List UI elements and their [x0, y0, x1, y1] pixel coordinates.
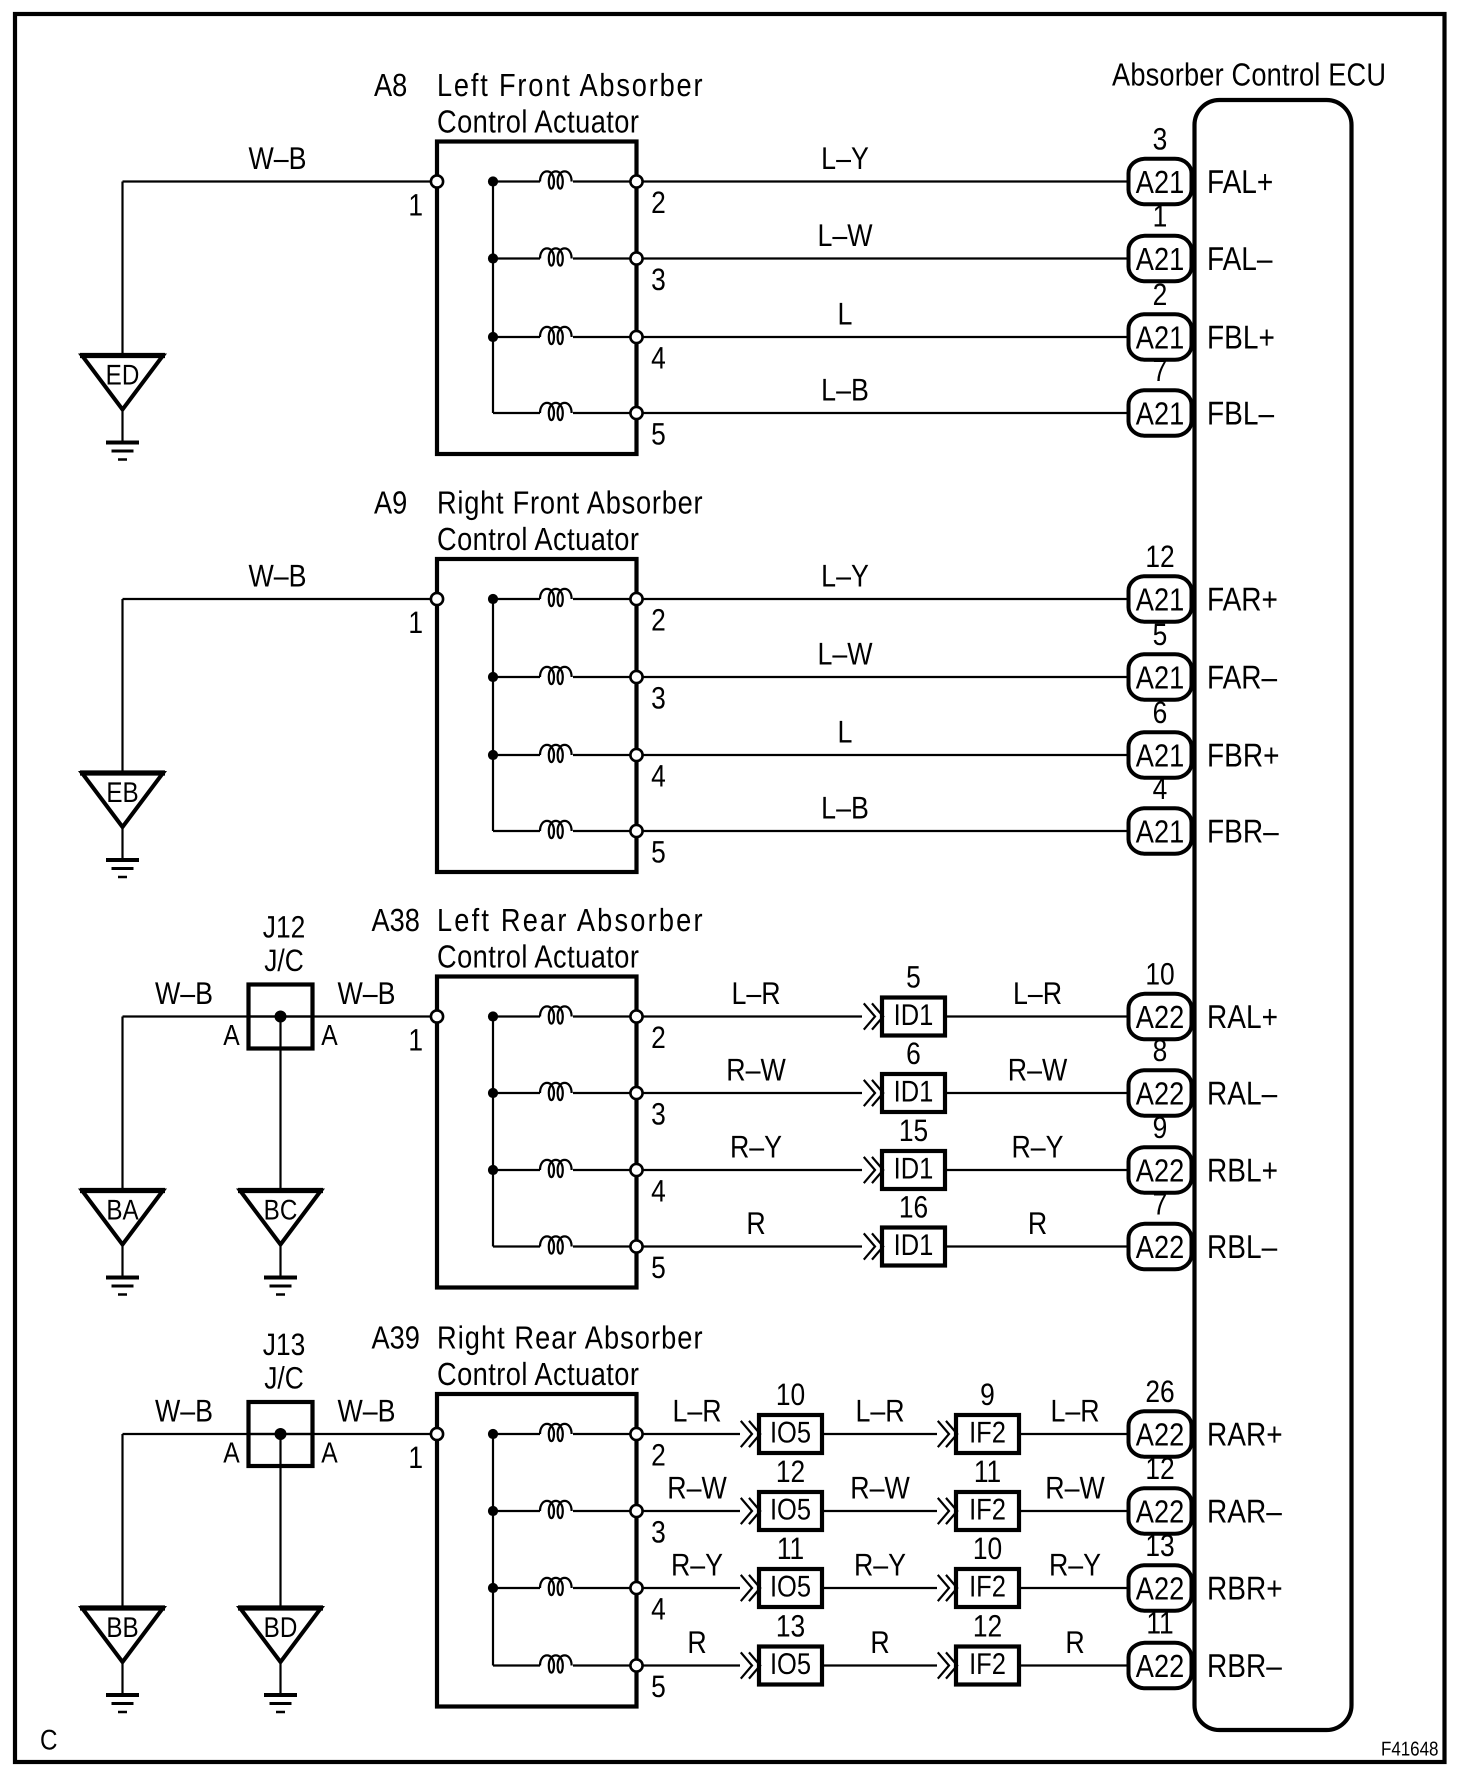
svg-text:L–R: L–R — [1013, 975, 1062, 1011]
svg-text:2: 2 — [651, 1438, 666, 1473]
svg-text:RBL+: RBL+ — [1207, 1152, 1278, 1189]
pin 5 of A38 — [630, 1240, 665, 1285]
label: A38 Left Rear Absorber Control Actuator — [372, 902, 703, 975]
connector A21 pin 7 (FBL–) — [1129, 353, 1192, 436]
svg-text:5: 5 — [651, 417, 666, 452]
coil winding A8-2 — [493, 248, 637, 265]
svg-text:R–W: R–W — [667, 1470, 727, 1506]
svg-text:W–B: W–B — [337, 975, 395, 1011]
connector IF2 pin 10 — [939, 1531, 1020, 1607]
svg-text:L–W: L–W — [817, 636, 872, 672]
svg-text:R–Y: R–Y — [1049, 1547, 1101, 1583]
svg-text:ED: ED — [106, 360, 140, 392]
svg-text:L–B: L–B — [821, 372, 869, 408]
svg-text:10: 10 — [973, 1531, 1002, 1566]
svg-text:F41648: F41648 — [1381, 1739, 1438, 1761]
label: A9 Right Front Absorber Control Actuator — [374, 485, 703, 558]
label: A39 Right Rear Absorber Control Actuator — [372, 1320, 703, 1393]
svg-text:A8: A8 — [374, 67, 407, 103]
ground BA — [80, 1191, 165, 1295]
wire R–Y from A38 pin 4 to ID1 — [643, 1129, 862, 1171]
actuator block A9 body — [437, 559, 637, 872]
wire L–R from ID1 to ECU RAL+ — [947, 975, 1129, 1017]
svg-text:12: 12 — [1145, 539, 1174, 574]
coil winding A8-1 — [493, 171, 637, 188]
connector A22 pin 13 (RBR+) — [1129, 1528, 1192, 1611]
svg-text:4: 4 — [651, 1174, 666, 1209]
pin 4 of A39 — [630, 1582, 665, 1627]
coil winding A39-1 — [493, 1424, 637, 1441]
svg-text:7: 7 — [1153, 1187, 1168, 1222]
svg-text:A22: A22 — [1136, 1417, 1184, 1453]
svg-text:1: 1 — [408, 605, 423, 640]
svg-text:5: 5 — [1153, 617, 1168, 652]
svg-text:L–R: L–R — [855, 1393, 904, 1429]
svg-text:L–R: L–R — [731, 975, 780, 1011]
svg-text:FBR+: FBR+ — [1207, 737, 1279, 774]
svg-text:13: 13 — [1145, 1528, 1174, 1563]
svg-text:R–W: R–W — [850, 1470, 910, 1506]
wire R from A39 pin 5 to IO5 — [643, 1624, 740, 1666]
connector IF2 pin 9 — [939, 1377, 1020, 1453]
svg-text:FBL–: FBL– — [1207, 395, 1275, 432]
svg-text:R: R — [1028, 1205, 1047, 1241]
svg-text:FBR–: FBR– — [1207, 813, 1279, 850]
svg-text:6: 6 — [906, 1036, 921, 1071]
pin 2 of A39 — [630, 1428, 665, 1473]
svg-text:A38: A38 — [372, 902, 420, 938]
svg-text:ID1: ID1 — [894, 1076, 934, 1109]
svg-text:IO5: IO5 — [770, 1571, 811, 1604]
wire W-B from ground to pin 1 of A9 — [123, 558, 431, 774]
pin 1 of A38 — [408, 1010, 443, 1057]
svg-text:L–R: L–R — [672, 1393, 721, 1429]
junction node A9 row 3 — [488, 750, 498, 760]
svg-text:R–Y: R–Y — [854, 1547, 906, 1583]
label: A8 Left Front Absorber Control Actuator — [374, 67, 703, 140]
svg-text:5: 5 — [651, 1250, 666, 1285]
svg-text:IF2: IF2 — [969, 1417, 1006, 1450]
svg-text:3: 3 — [651, 1515, 666, 1550]
svg-text:10: 10 — [1145, 957, 1174, 992]
svg-text:10: 10 — [776, 1377, 805, 1412]
svg-text:Absorber Control ECU: Absorber Control ECU — [1112, 57, 1386, 93]
coil winding A8-4 — [493, 403, 637, 420]
svg-text:R: R — [870, 1624, 889, 1660]
svg-text:FAR+: FAR+ — [1207, 581, 1278, 618]
svg-text:A: A — [223, 1020, 240, 1052]
pin 1 of A9 — [408, 593, 443, 640]
svg-text:A22: A22 — [1136, 1076, 1184, 1112]
connector A21 pin 3 (FAL+) — [1129, 122, 1192, 205]
svg-text:ID1: ID1 — [894, 1229, 934, 1262]
pin 3 of A9 — [630, 671, 665, 716]
pin 2 of A8 — [630, 175, 665, 220]
svg-text:W–B: W–B — [155, 975, 213, 1011]
ECU: Absorber Control ECU — [1112, 57, 1386, 1731]
svg-text:8: 8 — [1153, 1033, 1168, 1068]
svg-text:J/C: J/C — [264, 943, 304, 978]
svg-text:12: 12 — [973, 1609, 1002, 1644]
junction connector J12 (J/C) — [223, 910, 338, 1053]
junction node A38 row 3 — [488, 1165, 498, 1175]
svg-text:A: A — [223, 1438, 240, 1470]
wire R–Y from A39 pin 4 to IO5 — [643, 1547, 740, 1589]
svg-text:RAL+: RAL+ — [1207, 998, 1278, 1035]
pin 5 of A8 — [630, 407, 665, 452]
svg-text:IO5: IO5 — [770, 1648, 811, 1681]
svg-text:Left Rear Absorber: Left Rear Absorber — [437, 902, 703, 938]
svg-text:A21: A21 — [1136, 396, 1184, 432]
pin 3 of A8 — [630, 252, 665, 297]
svg-text:RAL–: RAL– — [1207, 1075, 1278, 1112]
svg-text:L: L — [838, 296, 853, 332]
ground BC — [238, 1191, 323, 1295]
svg-text:11: 11 — [777, 1531, 804, 1566]
svg-text:FBL+: FBL+ — [1207, 319, 1275, 356]
connector IO5 pin 11 — [742, 1531, 823, 1607]
svg-text:R: R — [1065, 1624, 1084, 1660]
svg-text:11: 11 — [1146, 1606, 1173, 1641]
actuator block A39 body — [437, 1394, 637, 1707]
svg-text:J/C: J/C — [264, 1361, 304, 1396]
junction node A8 row 2 — [488, 253, 498, 263]
svg-text:12: 12 — [1145, 1451, 1174, 1486]
svg-text:A21: A21 — [1136, 738, 1184, 774]
svg-text:A22: A22 — [1136, 1153, 1184, 1189]
connector A21 pin 6 (FBR+) — [1129, 695, 1192, 778]
svg-text:A21: A21 — [1136, 164, 1184, 200]
connector IO5 pin 10 — [742, 1377, 823, 1453]
junction node A39 row 1 — [488, 1429, 498, 1439]
svg-text:RAR+: RAR+ — [1207, 1416, 1283, 1453]
wire from J13 pin A down to ground BD — [279, 1434, 281, 1608]
svg-text:R–W: R–W — [1008, 1052, 1068, 1088]
svg-text:Right Front Absorber: Right Front Absorber — [437, 485, 703, 521]
svg-text:A21: A21 — [1136, 582, 1184, 618]
svg-text:FAR–: FAR– — [1207, 659, 1278, 696]
pin 4 of A38 — [630, 1164, 665, 1209]
actuator block A38 body — [437, 977, 637, 1288]
coil winding A39-4 — [493, 1655, 637, 1672]
wire R–W from IF2 to ECU RAR– — [1021, 1470, 1129, 1512]
svg-text:J12: J12 — [263, 910, 305, 945]
svg-text:1: 1 — [408, 188, 423, 223]
pin 1 of A8 — [408, 175, 443, 222]
svg-text:A9: A9 — [374, 485, 407, 521]
svg-text:3: 3 — [1153, 122, 1168, 157]
svg-text:W–B: W–B — [248, 558, 306, 594]
wire L–W from A8 pin 3 to ECU FAL– — [643, 217, 1129, 259]
connector A21 pin 12 (FAR+) — [1129, 539, 1192, 622]
svg-text:L–W: L–W — [817, 217, 872, 253]
svg-text:R–Y: R–Y — [730, 1129, 782, 1165]
svg-text:Right Rear Absorber: Right Rear Absorber — [437, 1320, 703, 1356]
wire L–R from A39 pin 2 to IO5 — [643, 1393, 740, 1435]
junction node A38 row 1 — [488, 1011, 498, 1021]
svg-text:BD: BD — [264, 1612, 298, 1644]
svg-text:ID1: ID1 — [894, 1153, 934, 1186]
coil winding A38-1 — [493, 1006, 637, 1023]
svg-text:4: 4 — [1153, 771, 1168, 806]
connector ID1 pin 15 — [865, 1113, 946, 1189]
svg-text:6: 6 — [1153, 695, 1168, 730]
junction node A8 row 1 — [488, 176, 498, 186]
svg-text:EB: EB — [106, 777, 138, 809]
connector A21 pin 1 (FAL–) — [1129, 199, 1192, 282]
svg-text:Control Actuator: Control Actuator — [437, 1356, 639, 1392]
connector A22 pin 9 (RBL+) — [1129, 1110, 1192, 1193]
svg-text:A22: A22 — [1136, 1229, 1184, 1265]
svg-text:5: 5 — [651, 1669, 666, 1704]
connector A22 pin 12 (RAR–) — [1129, 1451, 1192, 1534]
svg-text:IF2: IF2 — [969, 1648, 1006, 1681]
svg-text:FAL+: FAL+ — [1207, 163, 1273, 200]
svg-text:IO5: IO5 — [770, 1417, 811, 1450]
pin 2 of A9 — [630, 593, 665, 638]
svg-text:ID1: ID1 — [894, 999, 934, 1032]
svg-text:RBR+: RBR+ — [1207, 1570, 1283, 1607]
wire R–W from IO5 to IF2 — [824, 1470, 937, 1512]
wire L–Y from A8 pin 2 to ECU FAL+ — [643, 140, 1129, 182]
actuator block A8 body — [437, 142, 637, 455]
svg-text:C: C — [40, 1725, 58, 1757]
svg-text:A21: A21 — [1136, 320, 1184, 356]
wire R–Y from ID1 to ECU RBL+ — [947, 1129, 1129, 1171]
svg-text:L: L — [838, 714, 853, 750]
svg-text:BA: BA — [106, 1195, 138, 1227]
svg-text:A22: A22 — [1136, 999, 1184, 1035]
svg-text:2: 2 — [651, 603, 666, 638]
svg-text:R: R — [746, 1205, 765, 1241]
pin 3 of A38 — [630, 1087, 665, 1132]
wire W-B from ground BB to junction connector J13 — [123, 1393, 315, 1609]
svg-text:2: 2 — [1153, 277, 1168, 312]
svg-text:IF2: IF2 — [969, 1571, 1006, 1604]
svg-text:R–W: R–W — [726, 1052, 786, 1088]
wire L–B from A8 pin 5 to ECU FBL– — [643, 372, 1129, 414]
pin 5 of A9 — [630, 825, 665, 870]
svg-text:IF2: IF2 — [969, 1494, 1006, 1527]
svg-text:W–B: W–B — [155, 1393, 213, 1429]
connector A21 pin 4 (FBR–) — [1129, 771, 1192, 854]
wire L–R from IF2 to ECU RAR+ — [1021, 1393, 1129, 1435]
wire from J12 pin A down to ground BC — [279, 1017, 281, 1191]
connector IF2 pin 11 — [939, 1454, 1020, 1530]
connector A22 pin 7 (RBL–) — [1129, 1187, 1192, 1270]
svg-text:4: 4 — [651, 341, 666, 376]
svg-text:13: 13 — [776, 1609, 805, 1644]
svg-text:2: 2 — [651, 185, 666, 220]
wire W-B from J13 pin A to pin 1 of A39 — [247, 1393, 431, 1435]
svg-text:A21: A21 — [1136, 241, 1184, 277]
svg-text:IO5: IO5 — [770, 1494, 811, 1527]
connector IF2 pin 12 — [939, 1609, 1020, 1685]
connector A22 pin 26 (RAR+) — [1129, 1374, 1192, 1457]
svg-text:RAR–: RAR– — [1207, 1493, 1282, 1530]
wire L–R from A38 pin 2 to ID1 — [643, 975, 862, 1017]
svg-text:W–B: W–B — [337, 1393, 395, 1429]
wire R–Y from IF2 to ECU RBR+ — [1021, 1547, 1129, 1589]
svg-text:L–Y: L–Y — [821, 558, 869, 594]
ground BD — [238, 1608, 323, 1712]
svg-text:R: R — [687, 1624, 706, 1660]
junction connector J13 (J/C) — [223, 1327, 338, 1470]
svg-text:A: A — [321, 1438, 338, 1470]
pin 4 of A8 — [630, 331, 665, 376]
wire R–W from A39 pin 3 to IO5 — [643, 1470, 740, 1512]
svg-text:W–B: W–B — [248, 140, 306, 176]
junction node A39 row 2 — [488, 1506, 498, 1516]
wire R from IO5 to IF2 — [824, 1624, 937, 1666]
wire L from A8 pin 4 to ECU FBL+ — [643, 296, 1129, 338]
svg-text:BB: BB — [106, 1612, 138, 1644]
svg-text:L–Y: L–Y — [821, 140, 869, 176]
svg-text:12: 12 — [776, 1454, 805, 1489]
connector IO5 pin 13 — [742, 1609, 823, 1685]
ground BB — [80, 1608, 165, 1712]
connector A22 pin 11 (RBR–) — [1129, 1606, 1192, 1689]
wire W-B from J12 pin A to pin 1 of A38 — [247, 975, 431, 1017]
connector A22 pin 10 (RAL+) — [1129, 957, 1192, 1040]
svg-text:4: 4 — [651, 1592, 666, 1627]
svg-text:FAL–: FAL– — [1207, 240, 1273, 277]
wire R from ID1 to ECU RBL– — [947, 1205, 1129, 1247]
wire R from IF2 to ECU RBR– — [1021, 1624, 1129, 1666]
wire L–R from IO5 to IF2 — [824, 1393, 937, 1435]
wire L–W from A9 pin 3 to ECU FAR– — [643, 636, 1129, 678]
ground EB — [80, 773, 165, 877]
svg-text:RBR–: RBR– — [1207, 1647, 1282, 1684]
svg-text:BC: BC — [264, 1195, 298, 1227]
svg-text:16: 16 — [899, 1190, 928, 1225]
wire W-B from ground BA to junction connector J12 — [123, 975, 315, 1191]
svg-text:3: 3 — [651, 1097, 666, 1132]
coil winding A9-4 — [493, 821, 637, 838]
connector A21 pin 2 (FBL+) — [1129, 277, 1192, 360]
wire R–W from A38 pin 3 to ID1 — [643, 1052, 862, 1094]
svg-text:3: 3 — [651, 681, 666, 716]
svg-text:1: 1 — [1153, 199, 1168, 234]
svg-text:A21: A21 — [1136, 660, 1184, 696]
pin 5 of A39 — [630, 1659, 665, 1704]
svg-text:A22: A22 — [1136, 1571, 1184, 1607]
pin 2 of A38 — [630, 1010, 665, 1055]
svg-text:1: 1 — [408, 1023, 423, 1058]
svg-text:2: 2 — [651, 1020, 666, 1055]
connector ID1 pin 6 — [865, 1036, 946, 1112]
wire W-B from ground to pin 1 of A8 — [123, 140, 431, 356]
svg-text:3: 3 — [651, 262, 666, 297]
junction node A8 row 3 — [488, 332, 498, 342]
wire R–Y from IO5 to IF2 — [824, 1547, 937, 1589]
svg-text:26: 26 — [1145, 1374, 1174, 1409]
wire L–Y from A9 pin 2 to ECU FAR+ — [643, 558, 1129, 600]
svg-text:RBL–: RBL– — [1207, 1228, 1278, 1265]
coil winding A39-2 — [493, 1501, 637, 1518]
coil winding A38-4 — [493, 1236, 637, 1253]
coil winding A38-3 — [493, 1160, 637, 1177]
svg-text:L–B: L–B — [821, 790, 869, 826]
svg-text:4: 4 — [651, 759, 666, 794]
pin 3 of A39 — [630, 1505, 665, 1550]
coil winding A38-2 — [493, 1083, 637, 1100]
pin 4 of A9 — [630, 749, 665, 794]
junction node A39 row 3 — [488, 1583, 498, 1593]
svg-text:A21: A21 — [1136, 814, 1184, 850]
svg-text:5: 5 — [651, 835, 666, 870]
junction node A38 row 2 — [488, 1088, 498, 1098]
coil winding A9-3 — [493, 745, 637, 762]
pin 1 of A39 — [408, 1428, 443, 1475]
svg-text:Control Actuator: Control Actuator — [437, 521, 639, 557]
svg-text:5: 5 — [906, 960, 921, 995]
coil winding A8-3 — [493, 327, 637, 344]
svg-text:7: 7 — [1153, 353, 1168, 388]
svg-text:A22: A22 — [1136, 1494, 1184, 1530]
connector IO5 pin 12 — [742, 1454, 823, 1530]
wire L from A9 pin 4 to ECU FBR+ — [643, 714, 1129, 756]
wire L–B from A9 pin 5 to ECU FBR– — [643, 790, 1129, 832]
svg-text:A22: A22 — [1136, 1648, 1184, 1684]
connector A21 pin 5 (FAR–) — [1129, 617, 1192, 700]
wire R–W from ID1 to ECU RAL– — [947, 1052, 1129, 1094]
svg-text:Control Actuator: Control Actuator — [437, 104, 639, 140]
coil winding A9-2 — [493, 667, 637, 684]
junction node A9 row 2 — [488, 672, 498, 682]
connector A22 pin 8 (RAL–) — [1129, 1033, 1192, 1116]
svg-text:R–W: R–W — [1045, 1470, 1105, 1506]
ground ED — [80, 356, 165, 460]
svg-text:Control Actuator: Control Actuator — [437, 939, 639, 975]
svg-text:A39: A39 — [372, 1320, 420, 1356]
svg-text:11: 11 — [974, 1454, 1001, 1489]
coil winding A9-1 — [493, 589, 637, 606]
svg-text:15: 15 — [899, 1113, 928, 1148]
coil winding A39-3 — [493, 1578, 637, 1595]
connector ID1 pin 16 — [865, 1190, 946, 1266]
svg-text:L–R: L–R — [1050, 1393, 1099, 1429]
svg-text:R–Y: R–Y — [1011, 1129, 1063, 1165]
svg-text:9: 9 — [980, 1377, 995, 1412]
svg-text:A: A — [321, 1020, 338, 1052]
wire R from A38 pin 5 to ID1 — [643, 1205, 862, 1247]
connector ID1 pin 5 — [865, 960, 946, 1036]
svg-text:9: 9 — [1153, 1110, 1168, 1145]
junction node A9 row 1 — [488, 594, 498, 604]
svg-text:R–Y: R–Y — [671, 1547, 723, 1583]
svg-text:J13: J13 — [263, 1327, 305, 1362]
svg-text:1: 1 — [408, 1440, 423, 1475]
